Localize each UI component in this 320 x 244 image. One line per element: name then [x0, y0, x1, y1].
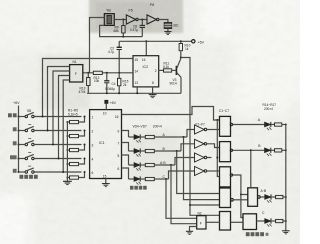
- node R13 top: [87, 72, 89, 74]
- resistor R11: [164, 69, 172, 72]
- node row4 fan: [58, 158, 60, 160]
- resistor R9: [122, 20, 125, 37]
- diode VD7: [129, 176, 146, 184]
- node R9 bottom: [122, 36, 124, 38]
- wire N1 input 2: [53, 71, 70, 145]
- svg-text:3: 3: [92, 143, 94, 147]
- LED VD10: [265, 194, 276, 202]
- svg-text:+6V: +6V: [13, 101, 20, 105]
- wire B1 top feed: [250, 150, 252, 188]
- wire feedback bottom: [100, 25, 143, 36]
- svg-text:15: 15: [135, 58, 139, 62]
- node pin16 top: [145, 40, 147, 42]
- node row2 fan: [47, 130, 49, 132]
- node row down: [170, 164, 172, 166]
- svg-text:16: 16: [115, 115, 119, 119]
- label 输入选择 blobs: [20, 175, 38, 179]
- gate box C3: [220, 167, 231, 187]
- switch SB3: [18, 139, 82, 146]
- bubble box C2 out: [230, 149, 232, 151]
- label input C blob: [10, 155, 17, 159]
- svg-text:1k: 1k: [185, 47, 189, 51]
- gate box C1: [220, 116, 231, 136]
- svg-text:+6V: +6V: [198, 40, 205, 44]
- node row5 fan: [62, 171, 64, 173]
- wire N2 out to box C5: [206, 221, 220, 223]
- resistor R15b: [275, 149, 286, 152]
- wire IC1 pin jog VD5: [122, 143, 129, 152]
- resistor R8: [145, 163, 175, 166]
- LED VD8: [265, 122, 275, 130]
- capacitor C4: [104, 73, 109, 94]
- inverter F6: [147, 15, 159, 24]
- svg-text:+6V: +6V: [110, 101, 117, 105]
- wire branch to box C4 in3: [190, 204, 220, 206]
- label 输入显示 blobs: [130, 186, 147, 190]
- wire IC2 pin8 stub: [152, 87, 154, 93]
- node inv3 junction: [216, 157, 218, 159]
- svg-text:C4: C4: [112, 82, 116, 86]
- svg-text:13: 13: [135, 81, 139, 85]
- resistor R6: [145, 135, 187, 138]
- LED VD11: [265, 218, 276, 226]
- node B1 top feed: [250, 149, 252, 151]
- scan gray patch: [89, 0, 183, 33]
- node C3 route: [240, 194, 242, 196]
- switch SB1 reset: [18, 112, 82, 117]
- gate box B2: [243, 214, 257, 230]
- ground left bus: [63, 181, 72, 184]
- wire crystal input left: [90, 18, 105, 74]
- terminal +6V IC1: [105, 100, 108, 109]
- wire IC1 pin16 route to box1: [122, 107, 220, 121]
- label 输出显示 blobs: [246, 232, 269, 236]
- node C8 top: [141, 19, 143, 21]
- svg-text:F: F: [200, 222, 202, 226]
- diode VD5: [129, 148, 146, 156]
- svg-text:470k: 470k: [79, 90, 86, 94]
- wire IC1 gnd stub: [105, 179, 107, 184]
- svg-text:5.1k: 5.1k: [163, 65, 169, 69]
- gate box C5: [220, 212, 231, 231]
- wire row down to 219.5: [177, 151, 220, 194]
- label input A blob: [13, 127, 17, 131]
- label input B blob: [13, 141, 17, 145]
- ground rail symbol: [149, 93, 157, 97]
- node R15 top: [118, 72, 120, 74]
- svg-text:YB: YB: [106, 9, 111, 13]
- switch SB5: [18, 166, 82, 173]
- svg-text:BC: BC: [174, 24, 179, 28]
- bubble box C4 out: [231, 199, 234, 202]
- wire IC2 pin13 stub: [136, 87, 138, 93]
- resistor R15: [118, 73, 121, 94]
- svg-text:200×4: 200×4: [153, 125, 162, 129]
- IC2 box: [133, 56, 159, 87]
- resistor R7: [145, 149, 181, 152]
- wire box C1 out row A: [233, 124, 265, 126]
- wire IC1 pin jog VD7: [122, 168, 129, 179]
- svg-text:8: 8: [152, 81, 154, 85]
- wire B1 out row AB: [260, 196, 265, 198]
- svg-text:F6: F6: [150, 3, 154, 7]
- svg-text:0.068µ: 0.068µ: [105, 87, 115, 91]
- svg-text:5.1k×5: 5.1k×5: [68, 112, 78, 116]
- gate box B1: [248, 188, 258, 207]
- svg-text:F5: F5: [129, 9, 133, 13]
- wire node to long vertical: [181, 58, 220, 216]
- svg-text:15: 15: [103, 174, 107, 178]
- svg-text:2: 2: [155, 69, 157, 73]
- gate N1: [70, 65, 83, 82]
- transistor V3: [176, 59, 181, 94]
- wire IC1 pin jog VD6: [122, 155, 129, 165]
- crystal YB: [104, 14, 114, 26]
- wire box C5 out to B2: [231, 221, 244, 223]
- ground IC1: [102, 184, 110, 187]
- wire row down to 196.7: [171, 165, 197, 224]
- node osc out: [122, 19, 124, 21]
- svg-text:SB: SB: [27, 109, 31, 113]
- wire N1 input 4: [63, 80, 69, 172]
- wire B2 out row C: [257, 220, 265, 222]
- svg-text:10: 10: [103, 112, 107, 116]
- wire common rail under IC2: [87, 92, 181, 94]
- terminal +6V top: [192, 40, 195, 43]
- node C4 top: [106, 72, 108, 74]
- svg-text:200×4: 200×4: [264, 107, 273, 111]
- resistor R16b: [276, 195, 286, 198]
- wire row down to 219.5: [184, 137, 220, 200]
- wire IC1 pin jog VD4: [122, 131, 129, 138]
- resistor R14: [275, 123, 286, 126]
- svg-text:6: 6: [118, 167, 120, 171]
- wire F5 to F6: [138, 19, 147, 21]
- resistor R10: [179, 41, 182, 57]
- svg-text:A·B: A·B: [261, 189, 267, 193]
- ground right bus: [282, 231, 290, 234]
- resistor R2: [66, 130, 85, 138]
- wire box C3 out route: [233, 175, 248, 195]
- node rail pin13: [136, 92, 138, 94]
- node rail R15: [118, 92, 120, 94]
- ground below BC: [164, 29, 171, 35]
- wire crystal output: [114, 19, 126, 21]
- node row down: [183, 136, 185, 138]
- svg-text:9014: 9014: [170, 81, 177, 85]
- gate box C2: [220, 142, 231, 162]
- svg-text:9: 9: [118, 129, 120, 133]
- svg-text:6: 6: [92, 171, 94, 175]
- node bus row C: [285, 220, 287, 222]
- label input D blob: [13, 169, 17, 173]
- node R10 top: [180, 40, 182, 42]
- ground N2: [186, 231, 193, 234]
- wire N1 input 1: [48, 67, 70, 131]
- inverter F2: [195, 139, 220, 148]
- bubble box C3 out: [230, 174, 232, 176]
- resistor R3: [66, 144, 85, 152]
- wire IC2 pin16 up: [145, 41, 147, 55]
- wire right bus: [285, 125, 287, 231]
- node rail C4: [106, 92, 108, 94]
- node branch: [189, 204, 191, 206]
- wire row up to inverter: [169, 171, 195, 179]
- wire F6 to BC: [159, 20, 168, 23]
- wire +6V top rail: [119, 40, 191, 42]
- resistor R12: [93, 71, 102, 74]
- svg-text:VD4~VD7: VD4~VD7: [133, 125, 147, 129]
- svg-text:10k: 10k: [94, 79, 100, 83]
- LED VD9: [265, 148, 275, 156]
- node row down: [165, 178, 167, 180]
- wire box C2 out row B: [233, 149, 265, 151]
- gate N2: [197, 216, 206, 229]
- node box1 in1 spur: [216, 119, 218, 121]
- wire row up to inverter: [181, 144, 195, 151]
- resistor R17: [276, 219, 286, 222]
- svg-text:5: 5: [118, 154, 120, 158]
- svg-text:4.7µ: 4.7µ: [108, 50, 114, 54]
- resistor R5: [66, 171, 85, 179]
- capacitor C2: [117, 41, 122, 73]
- inverter F5: [126, 15, 138, 24]
- svg-text:A·B: A·B: [160, 161, 166, 165]
- inverter F4: [195, 167, 220, 176]
- svg-text:2k: 2k: [123, 83, 127, 87]
- wire C3 route to B2: [241, 195, 243, 218]
- svg-text:N1: N1: [73, 60, 77, 64]
- node bus row AB: [285, 196, 287, 198]
- switch SB2: [18, 125, 82, 132]
- gate box C4: [220, 188, 231, 208]
- label 复位 blobs: [8, 113, 17, 117]
- svg-text:0.47µ: 0.47µ: [130, 28, 138, 32]
- wire IC2 pin2 to R11: [159, 69, 164, 71]
- +6V rail left: [18, 106, 20, 173]
- svg-text:C1~C7: C1~C7: [219, 109, 229, 113]
- wire N1 out to IC2 pin14: [83, 72, 133, 74]
- node bus row B: [285, 149, 287, 151]
- wire row up to inverter: [187, 130, 195, 138]
- wire N1 input 3: [59, 76, 70, 159]
- wire R11 to base: [172, 69, 176, 71]
- inverter F1: [195, 125, 220, 134]
- wire row down to 196.7: [166, 179, 197, 218]
- svg-text:14: 14: [135, 70, 139, 74]
- wire row up to inverter: [175, 158, 195, 166]
- bubble box C1 out: [230, 123, 232, 125]
- node bus row A: [285, 124, 287, 126]
- wire ground bus resistors: [66, 122, 68, 181]
- node row1 fan: [42, 116, 44, 118]
- wire spur vertical to box3 in2: [217, 120, 219, 177]
- buzzer BC: [164, 23, 172, 29]
- wire reset to IC2 pin15: [43, 59, 134, 117]
- svg-text:4: 4: [92, 157, 94, 161]
- svg-text:N2: N2: [198, 212, 202, 216]
- svg-text:1: 1: [92, 115, 94, 119]
- node row3 fan: [52, 144, 54, 146]
- svg-text:IC1: IC1: [99, 141, 105, 145]
- svg-text:7: 7: [118, 141, 120, 145]
- bubble B1 out: [258, 196, 261, 199]
- svg-text:IC2: IC2: [143, 65, 149, 69]
- node row down: [176, 150, 178, 152]
- node collector: [180, 57, 182, 59]
- resistor R1: [66, 116, 85, 124]
- inverter F3: [195, 153, 212, 162]
- resistor R13: [87, 73, 90, 94]
- switch SB4: [18, 153, 82, 160]
- wire N2 ground: [190, 227, 197, 232]
- svg-text:F1~F7: F1~F7: [196, 122, 206, 126]
- diode VD6: [129, 162, 146, 170]
- svg-text:2: 2: [92, 129, 94, 133]
- svg-text:68k: 68k: [114, 29, 120, 33]
- resistor R4: [66, 158, 85, 166]
- diode VD4: [129, 134, 146, 142]
- wire C4 out to B1: [233, 199, 248, 201]
- IC1 box: [90, 110, 122, 179]
- capacitor C8: [140, 20, 145, 37]
- svg-text:F: F: [75, 72, 77, 76]
- resistor R9b: [145, 177, 168, 180]
- svg-text:16: 16: [142, 58, 146, 62]
